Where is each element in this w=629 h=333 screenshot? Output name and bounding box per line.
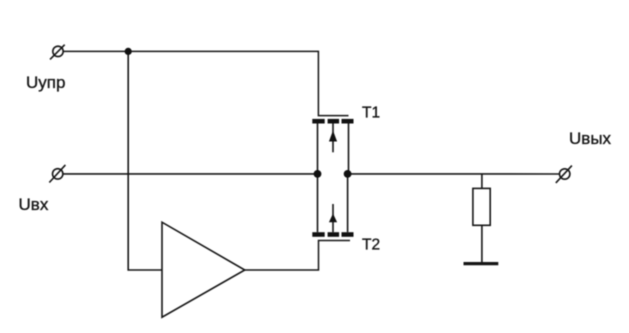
svg-text:Uвых: Uвых [569, 129, 612, 148]
svg-text:T2: T2 [362, 237, 380, 254]
svg-text:Uупр: Uупр [26, 73, 65, 92]
svg-text:T1: T1 [362, 105, 380, 122]
svg-text:Uвх: Uвх [19, 195, 49, 214]
